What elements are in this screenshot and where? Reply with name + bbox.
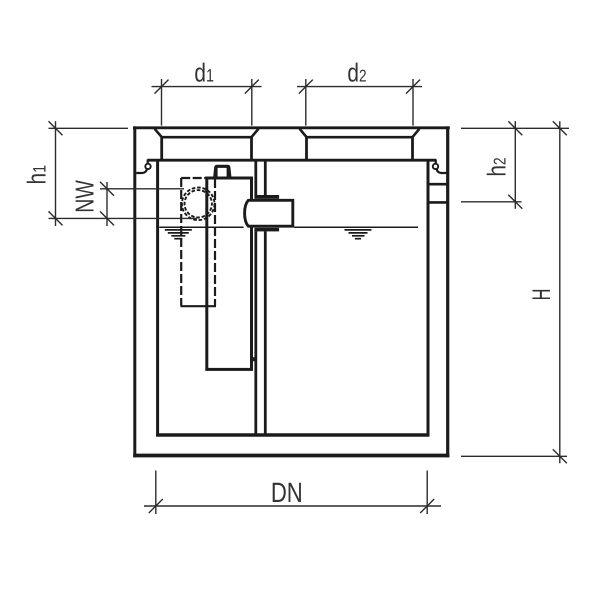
water level symbol left bbox=[165, 230, 192, 239]
dimension h1 top leader bbox=[49, 127, 129, 129]
dimension d2 tick right bbox=[406, 80, 420, 94]
outlet vertical pipe upper right line bbox=[264, 161, 267, 195]
left neck right wall bbox=[250, 136, 253, 160]
right wall outlet penetration lower line bbox=[428, 201, 448, 204]
left wall step moulding stub bbox=[147, 160, 149, 164]
inner tank liner right wall bbox=[427, 160, 430, 437]
dimension d1 tick left bbox=[155, 80, 169, 94]
svg-text:h2: h2 bbox=[482, 157, 512, 176]
outlet tee bottom flange bbox=[254, 228, 279, 232]
tank top slab shoulder line bbox=[147, 159, 436, 162]
dimension d1 line bbox=[152, 86, 262, 88]
svg-text:DN: DN bbox=[271, 477, 303, 508]
right wall step moulding knob bbox=[433, 164, 438, 169]
dimension h2 bottom leader bbox=[461, 201, 522, 203]
right neck left wall bbox=[305, 136, 308, 160]
water level symbol right bbox=[345, 230, 372, 239]
dimension NW top leader bbox=[100, 188, 184, 190]
left neck (d1 opening) left bevel bbox=[155, 129, 162, 137]
right neck cover underside bbox=[307, 136, 413, 139]
water line left chamber bbox=[159, 226, 243, 228]
dimension d2 line bbox=[297, 86, 422, 88]
svg-text:H: H bbox=[528, 289, 556, 301]
dimension DN extension lines bbox=[155, 471, 157, 515]
dimension H line bbox=[559, 121, 561, 463]
bracket tick between box and pipe bbox=[251, 357, 257, 361]
inlet box cap bbox=[213, 165, 231, 178]
tank outer shell left wall bbox=[133, 126, 136, 457]
inlet hidden pipe dashed box right edge bbox=[214, 179, 216, 306]
water line right chamber bbox=[294, 226, 418, 228]
dimension d2 tick left bbox=[299, 80, 313, 94]
svg-text:NW: NW bbox=[70, 180, 100, 213]
svg-text:d1: d1 bbox=[194, 58, 214, 88]
dimension h2/H shared top leader bbox=[461, 127, 569, 129]
outlet tee top flange bbox=[254, 195, 279, 199]
right wall step moulding stub bbox=[435, 160, 437, 164]
label h2 bbox=[482, 157, 512, 176]
dimension h1 tick bottom bbox=[49, 211, 63, 225]
right wall step moulding ledge bbox=[437, 169, 448, 173]
tank outer shell top line bbox=[133, 126, 450, 129]
dimension NW line bbox=[106, 182, 108, 226]
dimension d1 tick right bbox=[245, 80, 259, 94]
outlet tee body bbox=[245, 200, 293, 226]
left wall step moulding knob bbox=[145, 164, 150, 169]
outlet vertical pipe lower right line bbox=[264, 231, 267, 434]
inner tank liner left wall bbox=[156, 160, 159, 437]
dimension H tick bottom bbox=[553, 449, 567, 463]
label d2 bbox=[347, 58, 366, 88]
outlet vertical pipe upper left line bbox=[254, 161, 257, 195]
left neck left wall bbox=[160, 136, 163, 160]
dimension NW tick bottom bbox=[100, 211, 114, 225]
dimension d1 extension lines bbox=[161, 79, 163, 126]
right neck (d2 opening) left bevel bbox=[300, 129, 307, 137]
dimension NW tick top bbox=[100, 182, 114, 196]
inlet dip shaft box bbox=[207, 178, 252, 369]
dimension h2 tick top bbox=[508, 121, 522, 135]
dimension h2 line bbox=[514, 121, 516, 209]
right wall outlet penetration upper line bbox=[428, 183, 448, 186]
label NW bbox=[70, 180, 100, 213]
label DN bbox=[271, 477, 303, 508]
right neck right bevel bbox=[412, 129, 419, 137]
svg-text:d2: d2 bbox=[347, 58, 366, 88]
dimension d2 extension lines bbox=[305, 79, 307, 126]
dimension H bottom leader bbox=[461, 455, 567, 457]
label H bbox=[528, 289, 556, 301]
inlet pipe mouth inner circle bbox=[185, 190, 212, 217]
dimension H tick top bbox=[553, 121, 567, 135]
inner tank liner bottom bbox=[156, 433, 429, 437]
left wall step moulding ledge bbox=[136, 169, 147, 173]
label h1 bbox=[22, 165, 52, 185]
dimension h2 tick bottom bbox=[508, 195, 522, 209]
svg-text:h1: h1 bbox=[22, 165, 52, 185]
inlet hidden pipe dashed box top edge bbox=[181, 177, 205, 179]
left neck right bevel bbox=[251, 129, 258, 137]
dimension DN tick left bbox=[149, 499, 163, 513]
tank outer shell bottom line bbox=[133, 454, 449, 458]
label d1 bbox=[194, 58, 214, 88]
tank outer shell right wall bbox=[446, 126, 449, 457]
outlet vertical pipe lower left line bbox=[254, 231, 257, 434]
dimension DN tick right bbox=[420, 499, 434, 513]
inlet hidden pipe dashed box left edge bbox=[180, 178, 182, 306]
dimension h1/NW bottom leader bbox=[49, 217, 198, 219]
dimension h1 line bbox=[55, 121, 57, 226]
inlet hidden pipe dashed box bottom edge bbox=[181, 305, 217, 307]
right neck right wall bbox=[411, 136, 414, 160]
inlet pipe mouth outer circle bbox=[182, 188, 215, 221]
left neck cover underside bbox=[162, 136, 252, 139]
dimension h1 tick top bbox=[49, 121, 63, 135]
dimension DN line bbox=[144, 505, 441, 507]
